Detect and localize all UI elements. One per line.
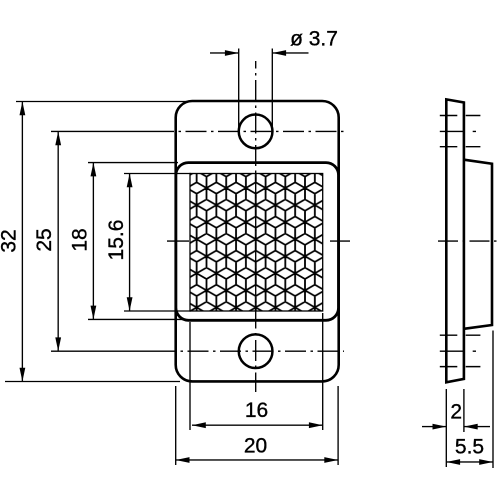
top hole center line (51, 130, 162, 132)
extension line frame bottom (dim 18) (88, 318, 186, 320)
dim line 3.7 left part (210, 52, 239, 53)
dim line 15.6 (129, 174, 130, 312)
hidden line top hole lower edge (440, 146, 481, 148)
extension line hole tangent left (dim 3.7) (238, 49, 240, 129)
extension line plate bottom (dim 32) (5, 381, 180, 383)
mounting hole top (239, 115, 273, 149)
side view mid center line (436, 240, 498, 242)
svg-text:2: 2 (450, 401, 462, 424)
hidden line bottom hole lower edge (440, 366, 481, 368)
side view plate outline (446, 99, 464, 382)
plate outline front view (176, 101, 339, 381)
extension line plate top (dim 32) (16, 101, 190, 103)
mid-height center line stub right (330, 240, 350, 242)
extension line facet left (dim 16) (189, 322, 191, 430)
hidden line bottom hole upper edge (440, 334, 481, 336)
extension line facet right (dim 16) (322, 313, 324, 430)
extension line facet bottom (dim 15.6) (124, 310, 191, 312)
extension line frame top (dim 18) (88, 162, 178, 164)
svg-text:15.6: 15.6 (105, 220, 128, 261)
vertical center line (255, 61, 257, 392)
dim line 2 right tail (464, 426, 490, 427)
svg-text:25: 25 (33, 228, 56, 251)
svg-text:ø 3.7: ø 3.7 (290, 28, 338, 51)
mounting hole bottom (239, 334, 273, 368)
dim line 2 left tail (422, 426, 446, 427)
extension line hole tangent right (dim 3.7) (271, 49, 273, 127)
extension line facet top (dim 15.6) (124, 173, 191, 175)
side view bottom hole center line (440, 350, 476, 352)
svg-text:16: 16 (245, 399, 268, 422)
dim line 5.5 (446, 461, 493, 462)
extension line plate front (dim 2) (463, 389, 465, 432)
svg-text:18: 18 (69, 228, 92, 251)
dim line 16 (192, 425, 323, 426)
dim line 18 (93, 163, 94, 320)
extension line plate right (dim 20) (337, 386, 339, 465)
side view reflector protrusion (464, 160, 492, 329)
extension line plate left (dim 20) (175, 386, 177, 465)
dim line 25 (58, 131, 59, 351)
svg-text:5.5: 5.5 (455, 436, 484, 459)
reflector bezel frame (176, 163, 339, 321)
mid-height center line stub left (167, 240, 189, 242)
bottom hole center line (51, 350, 164, 352)
extension line reflector face (dim 5.5) (492, 331, 494, 469)
svg-text:32: 32 (0, 229, 20, 252)
svg-text:20: 20 (244, 435, 267, 458)
dim line 3.7 right part (272, 52, 308, 53)
reflector prismatic facet area (190, 174, 323, 312)
side view top hole center line (440, 130, 476, 132)
dim line 20 (176, 459, 338, 460)
extension line plate back (dim 2 / 5.5) (445, 389, 447, 467)
dim line 32 (22, 102, 23, 382)
hidden line top hole upper edge (440, 115, 481, 117)
